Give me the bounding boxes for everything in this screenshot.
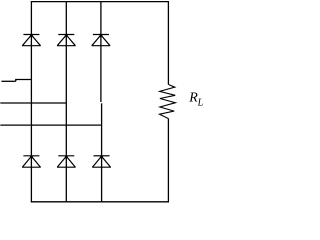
svg-text:L: L xyxy=(197,98,204,109)
